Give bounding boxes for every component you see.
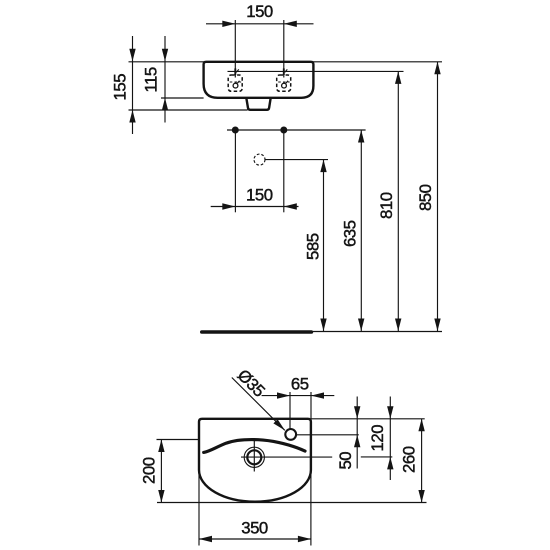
svg-text:50: 50 [336,452,355,470]
svg-text:635: 635 [340,220,359,247]
svg-text:120: 120 [368,425,387,452]
svg-text:810: 810 [377,192,396,219]
svg-text:155: 155 [111,74,130,101]
svg-text:260: 260 [400,446,419,473]
svg-text:150: 150 [246,2,273,21]
svg-text:350: 350 [241,519,268,538]
svg-text:850: 850 [416,184,435,211]
svg-text:150: 150 [246,186,273,205]
svg-text:585: 585 [304,233,323,260]
svg-text:65: 65 [291,375,309,394]
svg-text:200: 200 [140,457,159,484]
svg-text:115: 115 [142,67,161,92]
